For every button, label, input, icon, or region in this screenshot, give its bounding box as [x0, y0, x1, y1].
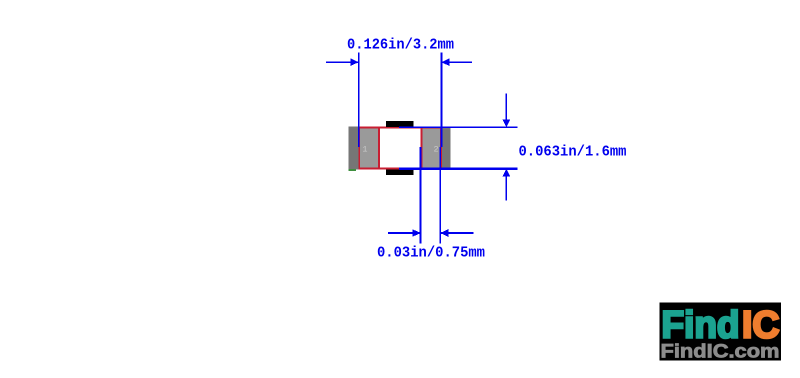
component body outline (red courtyard) — [359, 128, 441, 169]
width dim: right extension line — [441, 53, 443, 148]
pad dim: left extension line — [420, 147, 422, 243]
pad dim: left arrow shaft — [388, 232, 420, 234]
pad dim: right arrowhead — [440, 229, 448, 237]
width dim: left extension line — [358, 53, 360, 148]
svg-text:0.03in/0.75mm: 0.03in/0.75mm — [377, 245, 485, 262]
svg-text:Find: Find — [662, 305, 740, 347]
svg-text:0.063in/1.6mm: 0.063in/1.6mm — [519, 144, 627, 161]
terminal left (dark gray end cap) — [349, 127, 359, 170]
svg-text:1: 1 — [362, 145, 367, 155]
height dim: top arrow shaft — [505, 94, 507, 124]
svg-text:IC: IC — [742, 305, 780, 347]
pad dim: right extension line — [439, 147, 441, 243]
pad dim: left arrowhead — [412, 229, 420, 237]
width dim: left arrowhead — [350, 58, 358, 66]
pad dim: right arrow shaft — [441, 232, 474, 234]
origin marker (green) — [349, 169, 356, 171]
pad 2 — [422, 128, 441, 169]
logo background — [660, 303, 782, 361]
polarity bar bottom — [386, 169, 414, 175]
width dim: left arrow shaft — [326, 61, 358, 63]
pad 1 — [359, 128, 379, 169]
svg-text:0.126in/3.2mm: 0.126in/3.2mm — [347, 37, 454, 54]
width dim: right arrow shaft — [442, 61, 473, 63]
height dim: bottom arrow shaft — [505, 172, 507, 201]
polarity bar top — [386, 121, 414, 127]
width dim: right arrowhead — [441, 58, 449, 66]
svg-text:2: 2 — [433, 145, 438, 155]
svg-text:FindIC.com: FindIC.com — [661, 342, 780, 363]
terminal right (dark gray end cap) — [442, 127, 451, 170]
height dim: top extension line — [399, 126, 518, 128]
height dim: top arrowhead — [502, 119, 510, 127]
height dim: bottom arrowhead — [502, 169, 510, 177]
height dim: bottom extension line — [399, 168, 518, 170]
